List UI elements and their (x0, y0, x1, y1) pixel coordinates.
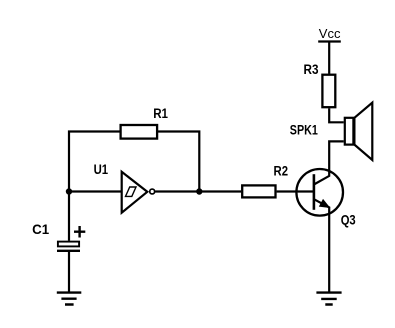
svg-text:C1: C1 (32, 222, 49, 237)
svg-text:R3: R3 (304, 62, 319, 77)
svg-text:R1: R1 (153, 106, 168, 121)
svg-text:U1: U1 (94, 162, 109, 177)
svg-text:R2: R2 (274, 164, 289, 179)
svg-text:Q3: Q3 (341, 212, 356, 227)
svg-text:Vcc: Vcc (319, 26, 341, 41)
svg-text:SPK1: SPK1 (290, 123, 318, 138)
